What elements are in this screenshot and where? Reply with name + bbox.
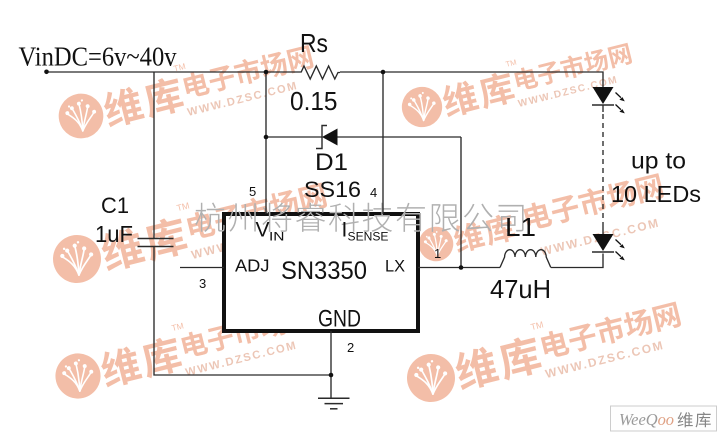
capacitor C1 plates: [138, 239, 174, 247]
watermark tile 6: [400, 287, 686, 414]
ground: [318, 398, 350, 409]
junction dot node diode-anode: [264, 135, 269, 140]
svg-text:VinDC=6v~40v: VinDC=6v~40v: [19, 41, 177, 72]
wire: GND pin vertical: [330, 331, 332, 398]
wire: diode row: [266, 136, 461, 138]
svg-text:SS16: SS16: [304, 177, 361, 202]
svg-text:D1: D1: [315, 149, 348, 176]
watermark tile 2: [396, 30, 637, 137]
wire: resistor to top-right corner: [340, 72, 603, 87]
watermark tile 5: [49, 290, 318, 410]
watermark tile 1: [52, 31, 318, 150]
wire: input to resistor: [46, 71, 301, 73]
svg-text:0.15: 0.15: [290, 86, 338, 116]
svg-text:I: I: [342, 219, 348, 242]
wire: LX to inductor: [418, 267, 500, 269]
svg-text:C1: C1: [101, 193, 129, 218]
svg-text:WeeQoo: WeeQoo: [619, 410, 674, 429]
wire: diode down to LX node: [460, 137, 462, 268]
watermark tile 4 small text: [522, 171, 671, 260]
wire: inductor to LED2: [551, 254, 603, 268]
gray company watermark text: [195, 203, 523, 233]
diode D1 (schottky): [316, 126, 338, 149]
junction dot node LX: [459, 265, 464, 270]
svg-text:up to: up to: [631, 148, 686, 174]
svg-text:5: 5: [249, 184, 256, 199]
op-amp/IC U1 SN3350 body: [224, 214, 418, 331]
svg-text:V: V: [256, 219, 270, 242]
svg-text:Rs: Rs: [300, 28, 328, 58]
svg-text:L1: L1: [505, 212, 536, 242]
junction dot node GND rail: [329, 373, 334, 378]
wire: LED1 bottom stub: [602, 106, 604, 113]
watermark tile 4: [415, 208, 517, 265]
wire: dashed LED string: [602, 114, 604, 222]
wire: LED2 top stub: [602, 222, 604, 234]
svg-text:IN: IN: [269, 230, 285, 244]
svg-text:ADJ: ADJ: [235, 256, 270, 276]
junction dot node Rs-right: [381, 70, 386, 75]
wire: C1 to bottom rail: [154, 247, 331, 376]
LED D2 (top of string): [592, 87, 625, 113]
svg-text:SN3350: SN3350: [281, 257, 367, 285]
watermark tile 3: [46, 168, 332, 295]
svg-text:1uF: 1uF: [95, 221, 133, 247]
junction dot input terminal: [44, 70, 49, 75]
svg-text:47uH: 47uH: [490, 274, 551, 304]
svg-text:LX: LX: [385, 257, 405, 276]
LED D3 (bottom of string): [592, 234, 625, 260]
svg-text:3: 3: [199, 276, 206, 291]
svg-text:1: 1: [434, 246, 441, 261]
resistor Rs zigzag: [301, 66, 340, 79]
wire: vin vertical to C1: [153, 72, 155, 239]
svg-text:4: 4: [370, 185, 377, 200]
wire: pin5 vertical: [265, 72, 267, 214]
svg-text:SENSE: SENSE: [348, 230, 389, 244]
junction dot node Rs-left: [264, 70, 269, 75]
inductor L1: [500, 250, 551, 268]
svg-text:GND: GND: [318, 306, 361, 333]
wire: ADJ stub pin3: [180, 267, 224, 269]
wire: pin4 vertical: [382, 72, 384, 214]
svg-text:10 LEDs: 10 LEDs: [611, 181, 701, 207]
WeeQoo badge: [611, 406, 717, 431]
svg-text:2: 2: [347, 340, 354, 355]
